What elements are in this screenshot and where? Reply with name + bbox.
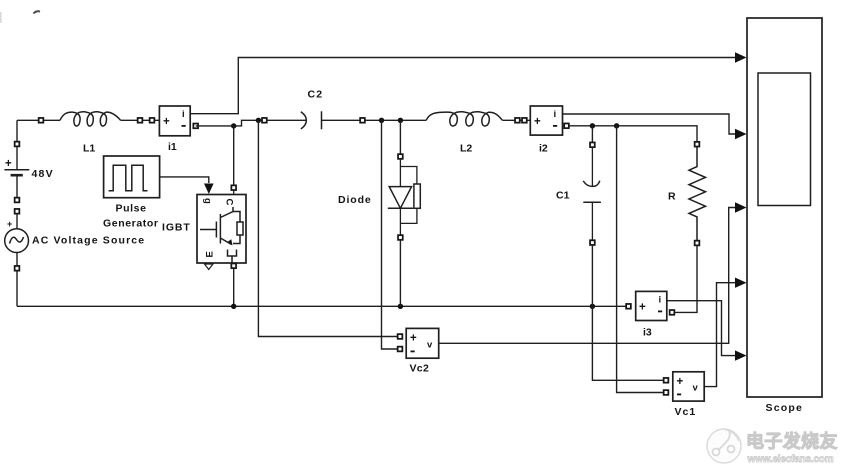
junction C1 top xyxy=(590,123,595,128)
svg-text:E: E xyxy=(205,251,216,257)
port: diode anode xyxy=(398,154,403,159)
pulse generator block xyxy=(104,156,160,198)
wire: pulse gen to IGBT gate xyxy=(160,177,209,183)
svg-text:www.elecfans.com: www.elecfans.com xyxy=(747,454,834,465)
svg-text:R: R xyxy=(668,191,676,203)
port: C1 bottom xyxy=(590,240,595,245)
wire: junction down to IGBT collector port xyxy=(233,126,235,185)
wire: i3 signal to scope 5 xyxy=(667,301,741,356)
node port on left wire xyxy=(39,118,44,123)
arrow into Scope input 4 xyxy=(735,278,747,288)
junction to IGBT collector xyxy=(231,123,236,128)
svg-text:Generator: Generator xyxy=(103,218,159,230)
svg-text:+: + xyxy=(163,116,170,128)
port: i2 input xyxy=(522,118,527,123)
wire: Vc1 signal to scope 4 xyxy=(704,283,741,387)
svg-text:i2: i2 xyxy=(539,143,548,155)
port: L2 right xyxy=(515,118,520,123)
svg-text:Pulse: Pulse xyxy=(116,203,147,215)
current measurement i2 xyxy=(530,106,562,135)
bottom rail xyxy=(17,305,626,307)
wire: C1 bottom to rail junction xyxy=(591,245,593,306)
port: C1 top xyxy=(590,142,595,147)
port: i1 measure out xyxy=(193,124,198,129)
svg-text:+: + xyxy=(5,158,12,170)
port: R bottom xyxy=(695,241,700,246)
wire: source top vertical xyxy=(16,120,18,143)
svg-text:v: v xyxy=(427,340,433,351)
svg-text:L2: L2 xyxy=(460,143,472,155)
svg-text:Vc2: Vc2 xyxy=(410,363,430,375)
port: C2 right xyxy=(360,118,365,123)
arrow into Scope input 5 xyxy=(735,350,747,360)
port: Vc1 minus xyxy=(664,390,669,395)
current measurement i1 xyxy=(159,106,190,136)
wire: top-left horizontal to L1 xyxy=(17,119,60,121)
wire: C1 top branch xyxy=(591,126,593,143)
voltage measurement Vc1 xyxy=(673,372,704,401)
wire: C1 junction down to Vc1 plus xyxy=(592,306,664,380)
port: Vc2 plus xyxy=(398,334,403,339)
svg-text:Scope: Scope xyxy=(766,402,804,414)
capacitor C2 xyxy=(267,111,361,129)
current measurement i3 xyxy=(636,291,667,320)
inductor L2 xyxy=(426,112,502,126)
junction to Vc2 plus xyxy=(256,118,261,123)
IGBT block xyxy=(197,195,246,264)
port: C2 left xyxy=(262,118,267,123)
junction rail / diode xyxy=(398,304,403,309)
port: Vc1 plus xyxy=(664,378,669,383)
svg-text:+: + xyxy=(7,219,12,229)
wire: L1 to i1 xyxy=(121,119,160,121)
svg-text:C: C xyxy=(224,199,235,206)
port: i2 measure out xyxy=(564,123,569,128)
port: i1 input xyxy=(150,118,155,123)
voltage measurement Vc2 xyxy=(406,328,439,358)
svg-text:i: i xyxy=(554,109,557,120)
arrow into Scope input 1 xyxy=(735,52,747,62)
wire: i1 out with step up to C2 xyxy=(196,120,264,126)
svg-text:IGBT: IGBT xyxy=(162,222,191,234)
gate arrowhead xyxy=(204,184,214,195)
wire: C2 to L2 xyxy=(365,119,426,121)
battery 48V xyxy=(4,142,29,203)
svg-text:+: + xyxy=(534,116,541,128)
stray mark left edge xyxy=(0,12,2,23)
wire: R bottom to i3 minus xyxy=(675,246,698,313)
svg-text:Vc1: Vc1 xyxy=(675,406,697,418)
svg-text:g: g xyxy=(202,198,213,204)
port: i3 measure out xyxy=(670,310,675,315)
port: i3 input xyxy=(626,304,631,309)
port: IGBT emitter xyxy=(231,263,236,268)
stray mark top-left xyxy=(34,11,41,13)
junction to Diode xyxy=(398,118,403,123)
AC voltage source xyxy=(5,209,29,306)
junction Vc1 minus branch xyxy=(614,123,619,128)
wire: Vc2 plus branch xyxy=(258,120,398,336)
junction rail / C1 bottom xyxy=(590,304,595,309)
svg-text:电子发烧友: 电子发烧友 xyxy=(746,431,838,452)
inductor L1 xyxy=(60,112,121,126)
svg-text:+: + xyxy=(410,333,417,345)
wire: IGBT emitter to rail xyxy=(233,268,235,306)
svg-text:i: i xyxy=(659,295,662,306)
watermark logo xyxy=(707,429,741,463)
svg-text:C2: C2 xyxy=(308,89,324,101)
svg-text:i3: i3 xyxy=(643,327,652,339)
capacitor C1 xyxy=(583,147,601,240)
svg-text:v: v xyxy=(693,383,699,394)
svg-text:Diode: Diode xyxy=(338,194,372,206)
resistor R xyxy=(689,147,706,241)
svg-text:C1: C1 xyxy=(556,190,570,202)
wire: diode top xyxy=(399,120,401,154)
scope block xyxy=(747,18,822,397)
svg-text:i: i xyxy=(182,109,185,120)
wire: Vc2 signal to scope 3 xyxy=(439,208,741,344)
wire: i2 signal out to scope 2 xyxy=(563,114,742,134)
diode with snubber xyxy=(388,159,421,235)
wire: diode bottom to rail xyxy=(399,240,401,306)
arrow into Scope input 2 xyxy=(735,129,747,139)
svg-text:+: + xyxy=(639,302,646,314)
port: L1 right xyxy=(138,118,143,123)
svg-text:i1: i1 xyxy=(168,141,177,153)
port: diode cathode xyxy=(398,235,403,240)
wire: i2 out to R corner xyxy=(569,126,697,142)
junction to Vc2 minus xyxy=(379,118,384,123)
port: Vc2 minus xyxy=(398,347,403,352)
junction rail / IGBT emitter xyxy=(231,304,236,309)
arrow into Scope input 3 xyxy=(735,202,747,212)
port: R top xyxy=(695,142,700,147)
svg-text:+: + xyxy=(677,376,684,388)
wire: L2 to i2 xyxy=(502,119,530,121)
svg-text:L1: L1 xyxy=(83,143,95,155)
IGBT m-port marker (hollow triangle) xyxy=(205,264,214,270)
svg-text:AC Voltage Source: AC Voltage Source xyxy=(32,235,145,247)
wire: port to block top xyxy=(233,190,235,194)
port: IGBT collector xyxy=(231,185,236,190)
wire: i1 signal out to top xyxy=(190,58,741,114)
svg-text:48V: 48V xyxy=(32,168,54,180)
wire: Vc2 minus branch xyxy=(382,120,399,349)
wire: Vc1 minus branch long vertical xyxy=(617,126,664,393)
